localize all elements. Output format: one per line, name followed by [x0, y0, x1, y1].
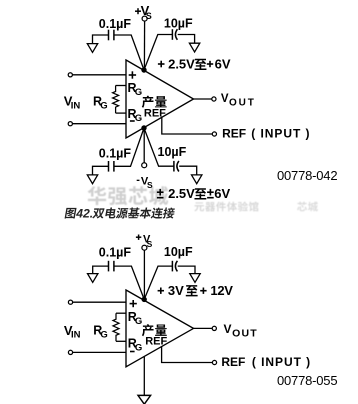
svg-text:( INPUT ): ( INPUT ): [251, 127, 310, 141]
svg-text:G: G: [100, 330, 107, 341]
svg-text:IN: IN: [71, 100, 81, 111]
svg-text:S: S: [146, 11, 152, 21]
svg-text:12V: 12V: [210, 283, 233, 298]
svg-text:6V: 6V: [214, 186, 230, 201]
svg-text:REF: REF: [221, 355, 245, 369]
svg-text:2.5V: 2.5V: [168, 186, 195, 201]
svg-text:3V: 3V: [168, 283, 184, 298]
svg-text:G: G: [135, 113, 142, 124]
svg-text:0.1µF: 0.1µF: [99, 146, 132, 160]
svg-text:OUT: OUT: [232, 328, 258, 340]
svg-text:V: V: [221, 93, 229, 105]
svg-text:G: G: [135, 342, 142, 353]
svg-text:REF: REF: [222, 127, 246, 141]
svg-text:REF: REF: [145, 336, 167, 348]
svg-text:V: V: [224, 322, 232, 336]
svg-text:G: G: [135, 87, 142, 98]
svg-text:( INPUT ): ( INPUT ): [252, 355, 311, 369]
svg-text:S: S: [147, 239, 153, 249]
svg-text:0.1µF: 0.1µF: [99, 246, 132, 260]
svg-text:0.1µF: 0.1µF: [99, 17, 132, 31]
svg-text:10µF: 10µF: [164, 245, 193, 259]
svg-text:00778-042: 00778-042: [277, 168, 337, 183]
svg-text:G: G: [100, 100, 107, 111]
svg-text:-: -: [136, 174, 140, 186]
svg-text:10µF: 10µF: [164, 17, 193, 31]
svg-text:2.5V: 2.5V: [168, 57, 195, 72]
svg-text:G: G: [135, 316, 142, 327]
svg-text:10µF: 10µF: [158, 145, 187, 159]
svg-text:IN: IN: [71, 330, 81, 341]
svg-text:S: S: [147, 180, 153, 190]
svg-text:00778-055: 00778-055: [277, 373, 337, 388]
svg-text:6V: 6V: [215, 57, 231, 72]
svg-text:42.: 42.: [75, 207, 93, 221]
svg-text:OUT: OUT: [229, 97, 256, 108]
svg-text:REF: REF: [144, 107, 166, 119]
